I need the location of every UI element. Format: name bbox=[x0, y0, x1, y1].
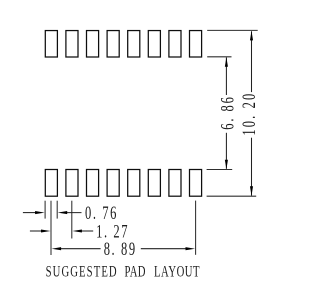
extension line pad1 left edge bbox=[44, 201, 46, 219]
wire 8.89 left segment bbox=[60, 248, 101, 250]
pad P14 bottom bbox=[148, 170, 160, 197]
extension line pad1 right edge bbox=[56, 201, 58, 219]
pad P6 top bbox=[148, 31, 160, 57]
bottom pad row bbox=[45, 170, 201, 197]
wire 0.76 right tail bbox=[65, 212, 82, 214]
pad P12 bottom bbox=[107, 170, 119, 197]
extension line pad1 center bbox=[50, 201, 52, 255]
pad P1 top bbox=[45, 31, 57, 57]
extension line bottom of top pads bbox=[207, 56, 231, 58]
extension line bottom of bottom pads bbox=[207, 195, 257, 197]
arrowhead 8.89 right (points right) bbox=[186, 247, 196, 250]
arrowhead 6.86 up bbox=[225, 57, 228, 66]
dimension 1.27 row bbox=[30, 230, 93, 232]
arrowhead 0.76 right (points left) bbox=[58, 211, 67, 214]
right side extension lines bbox=[207, 30, 258, 196]
arrowhead 8.89 left (points left) bbox=[52, 247, 62, 250]
top pad row bbox=[45, 31, 201, 57]
svg-text:PAD: PAD bbox=[125, 262, 146, 280]
bottom extension lines bbox=[45, 201, 196, 255]
pad P2 top bbox=[66, 31, 78, 57]
extension line pad2 center bbox=[71, 201, 73, 239]
extension line top of bottom pads bbox=[207, 169, 233, 171]
pad P15 bottom bbox=[169, 170, 181, 197]
arrowhead 0.76 left (points right) bbox=[35, 211, 45, 214]
pad P4 top bbox=[107, 31, 119, 57]
pad P10 bottom bbox=[66, 170, 78, 197]
pad P9 bottom bbox=[45, 170, 57, 197]
svg-text:10. 20: 10. 20 bbox=[240, 92, 260, 136]
dimension 0.76 row bbox=[23, 212, 82, 214]
extension line pad8 center bbox=[195, 201, 197, 255]
svg-text:0. 76: 0. 76 bbox=[85, 204, 118, 224]
arrowhead 1.27 right (points left) bbox=[72, 229, 82, 232]
pad P11 bottom bbox=[87, 170, 99, 197]
pad P5 top bbox=[128, 31, 140, 57]
pad P3 top bbox=[87, 31, 99, 57]
svg-text:6. 86: 6. 86 bbox=[218, 95, 238, 130]
svg-text:SUGGESTED: SUGGESTED bbox=[46, 262, 118, 280]
extension line top of top pads bbox=[207, 29, 258, 31]
svg-text:8. 89: 8. 89 bbox=[104, 240, 137, 260]
wire 8.89 right segment bbox=[141, 248, 188, 250]
dimension 6.86 vertical line bbox=[225, 58, 227, 169]
pad P16 bottom bbox=[190, 170, 202, 197]
dimension 10.20 vertical line bbox=[251, 31, 253, 195]
wire 0.76 left tail bbox=[23, 212, 38, 214]
pad P8 top bbox=[190, 31, 202, 57]
arrowhead 10.20 down bbox=[250, 186, 253, 196]
dimension 8.89 row bbox=[60, 248, 189, 250]
svg-text:LAYOUT: LAYOUT bbox=[154, 262, 200, 280]
arrowhead 1.27 left (points right) bbox=[41, 229, 51, 232]
pad P7 top bbox=[169, 31, 181, 57]
pad P13 bottom bbox=[128, 170, 140, 197]
arrowhead 6.86 down bbox=[225, 160, 228, 170]
wire 1.27 right tail bbox=[80, 230, 93, 232]
wire 1.27 left tail bbox=[30, 230, 43, 232]
arrowhead 10.20 up bbox=[250, 31, 253, 41]
